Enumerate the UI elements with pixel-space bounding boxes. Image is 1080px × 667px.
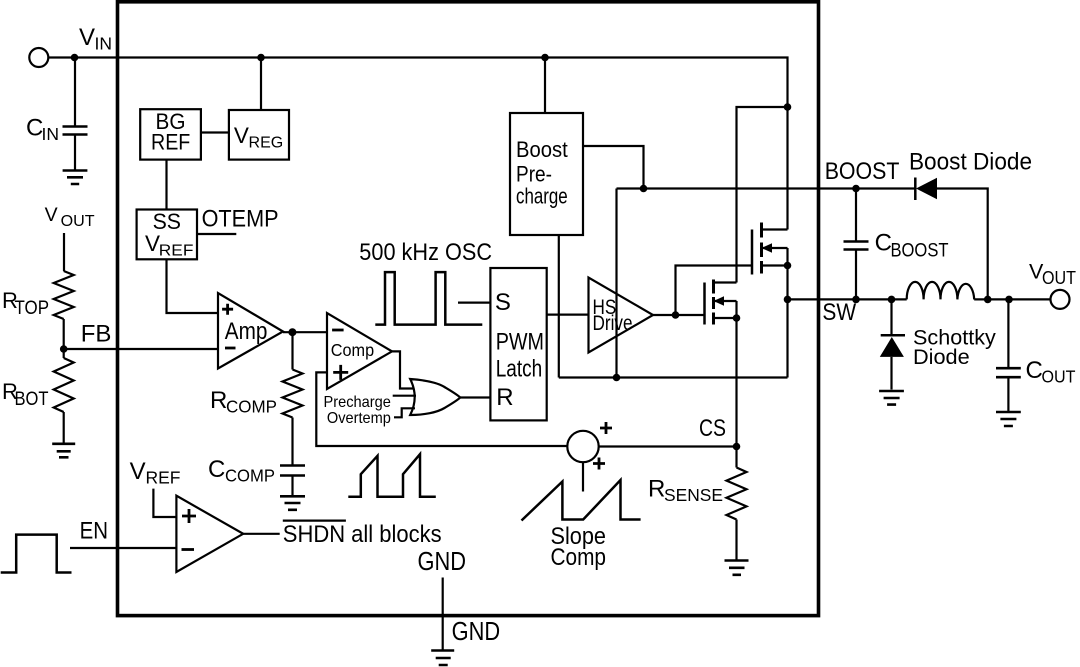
wire EN input [70, 547, 176, 549]
wire Comp + input path [316, 372, 567, 446]
wire GND [442, 578, 444, 650]
ground (GND pin) [431, 651, 454, 666]
svg-text:Latch: Latch [496, 356, 543, 383]
node VIN FET drains [784, 103, 792, 111]
svg-text:Boost Diode: Boost Diode [909, 149, 1032, 176]
wire Boost Pre-charge output to BOOST [583, 146, 644, 189]
node SW pin [784, 296, 792, 304]
wire Amp output to Comp - [283, 331, 327, 333]
diode D2 Schottky Diode [890, 299, 892, 336]
svg-text:SHDN all blocks: SHDN all blocks [283, 521, 442, 548]
svg-text:REF: REF [151, 129, 190, 154]
terminal VOUT output [1051, 290, 1070, 309]
wire Overtemp input [394, 408, 415, 417]
svg-text:COMP: COMP [226, 397, 277, 417]
node CBOOST top [852, 185, 860, 193]
waveform OSC clock pulses [375, 272, 482, 325]
wire Amp output to RCOMP [291, 332, 293, 369]
svg-text:S: S [495, 289, 511, 316]
svg-text:V: V [145, 231, 160, 256]
wire BG REF to VREG [201, 131, 229, 133]
node SW rail / BOOST vertical [613, 374, 621, 382]
block SS VREF [137, 210, 197, 260]
svg-text:V: V [234, 123, 249, 148]
buffer U5 HS Drive [589, 278, 654, 353]
node Schottky / inductor [888, 296, 896, 304]
wire OTEMP stub [197, 233, 236, 235]
svg-text:V: V [79, 24, 95, 51]
ground (Schottky) [879, 391, 904, 405]
svg-text:V: V [45, 204, 58, 226]
label SHDN all blocks with overline [283, 519, 346, 521]
capacitor CIN [74, 58, 76, 127]
svg-text:R: R [210, 387, 227, 414]
waveform Slope Comp sawtooth [522, 480, 641, 521]
wire EN comparator output [243, 533, 280, 535]
capacitor CCOMP [291, 418, 293, 466]
wire PWM Latch output to HS Drive [547, 314, 589, 316]
svg-text:OUT: OUT [1042, 367, 1076, 387]
svg-text:Diode: Diode [913, 346, 970, 369]
svg-text:PWM: PWM [496, 329, 544, 356]
ground (RSENSE) [725, 561, 749, 575]
svg-text:Comp: Comp [331, 340, 374, 360]
wire BG REF to SS VREF [165, 160, 167, 210]
wire HS Drive output to gates [653, 314, 705, 316]
svg-text:C: C [1026, 357, 1043, 384]
wire Precharge input [393, 395, 416, 397]
wire RBOT to ground [63, 412, 65, 443]
node COUT / VOUT [1005, 296, 1013, 304]
svg-text:BOT: BOT [15, 389, 49, 410]
wire FB node [63, 319, 65, 358]
svg-text:GND: GND [452, 618, 501, 646]
wire VREG branch [260, 58, 262, 111]
resistor RTOP [54, 271, 74, 319]
svg-text:TOP: TOP [15, 298, 50, 319]
wire BOOST to SW rail through HS Drive [615, 189, 617, 378]
svg-text:R: R [496, 384, 513, 411]
IC boundary box [118, 2, 819, 616]
wire slope comp stub [582, 462, 584, 491]
svg-text:REG: REG [249, 135, 284, 152]
svg-text:Comp: Comp [551, 544, 607, 571]
svg-text:OUT: OUT [61, 213, 96, 230]
wire Comp output to OR gate [392, 351, 414, 388]
ground (CIN) [63, 171, 88, 185]
svg-text:SENSE: SENSE [664, 485, 723, 505]
inductor L1 [907, 282, 975, 300]
wire SW rail [559, 376, 788, 378]
svg-text:IN: IN [42, 124, 60, 144]
svg-text:500 kHz OSC: 500 kHz OSC [359, 239, 492, 266]
transistor Q2 main switch FET [703, 283, 706, 325]
wire Boost Pre-charge branch [544, 58, 546, 114]
terminal VIN input [29, 48, 48, 67]
svg-text:CS: CS [699, 415, 726, 442]
svg-text:Amp: Amp [225, 318, 268, 345]
svg-text:REF: REF [146, 467, 181, 487]
resistor RSENSE [735, 447, 737, 468]
svg-text:R: R [648, 476, 665, 503]
wire OR output to PWM Latch R [460, 396, 490, 398]
svg-text:FB: FB [81, 321, 112, 348]
svg-text:SW: SW [822, 299, 856, 326]
node Q1 source [784, 262, 792, 270]
svg-text:OTEMP: OTEMP [202, 206, 279, 233]
resistor RBOT [54, 358, 74, 412]
svg-text:COMP: COMP [225, 466, 275, 486]
node FB [60, 345, 68, 353]
node VREG/VIN [257, 54, 265, 62]
capacitor COUT [1007, 299, 1009, 367]
svg-text:C: C [875, 230, 892, 257]
wire OSC to S input [458, 302, 490, 304]
diode D1 Boost Diode [914, 178, 917, 201]
resistor RCOMP [283, 370, 303, 418]
capacitor CBOOST [855, 189, 857, 242]
waveform CS ramp [348, 454, 436, 497]
svg-text:charge: charge [516, 184, 568, 209]
svg-text:Boost: Boost [516, 137, 568, 162]
svg-text:C: C [208, 456, 225, 483]
node CBOOST bottom / SW [852, 296, 860, 304]
node BOOST precharge join [640, 185, 648, 193]
waveform EN pulse [1, 535, 72, 573]
node CS / RSENSE [733, 443, 741, 451]
op-amp U1 Amp (error amplifier) [218, 293, 283, 369]
wire VIN rail [48, 58, 787, 230]
svg-text:V: V [130, 458, 146, 485]
ground (COUT) [996, 412, 1021, 426]
block PWM Latch [490, 268, 546, 420]
ground (CCOMP) [280, 496, 305, 510]
block Boost Pre-charge [510, 113, 583, 235]
wire BOOST line [617, 187, 916, 189]
comparator U2 Comp (PWM comparator) [327, 313, 392, 389]
ground (RBOT) [52, 444, 75, 458]
wire VOUT to RTOP [63, 233, 65, 271]
svg-text:REF: REF [159, 242, 194, 259]
node CIN/VIN [71, 54, 79, 62]
node Amp output [288, 328, 296, 336]
wire SS VREF to Amp + [167, 259, 219, 313]
svg-text:BOOST: BOOST [891, 241, 949, 262]
svg-text:GND: GND [418, 548, 467, 576]
svg-text:EN: EN [80, 518, 108, 545]
transistor Q1 boost precharge FET [751, 230, 754, 275]
summing node (slope comp adder) [567, 431, 598, 462]
wire CS line [599, 445, 737, 447]
block BG REF [140, 109, 201, 159]
svg-text:BOOST: BOOST [825, 158, 900, 185]
node gate drive split [672, 311, 680, 319]
wire VREF to EN comparator + [153, 489, 176, 517]
block VREG [229, 110, 289, 160]
node precharge/VIN [541, 54, 549, 62]
svg-text:IN: IN [95, 34, 113, 54]
wire SW line [788, 298, 907, 300]
wire Boost Pre-charge bottom to SW rail [558, 235, 560, 378]
comparator U3 EN comparator [176, 496, 243, 572]
svg-text:Overtemp: Overtemp [327, 410, 391, 427]
wire VIN to lower FET drain [737, 107, 788, 283]
svg-text:OUT: OUT [1042, 268, 1076, 288]
svg-text:Precharge: Precharge [324, 394, 391, 411]
OR gate U4 (Precharge/Overtemp/Comp) [410, 379, 460, 415]
svg-text:Drive: Drive [593, 312, 633, 335]
node Q2 source [733, 314, 741, 322]
node boost diode / inductor [984, 296, 992, 304]
